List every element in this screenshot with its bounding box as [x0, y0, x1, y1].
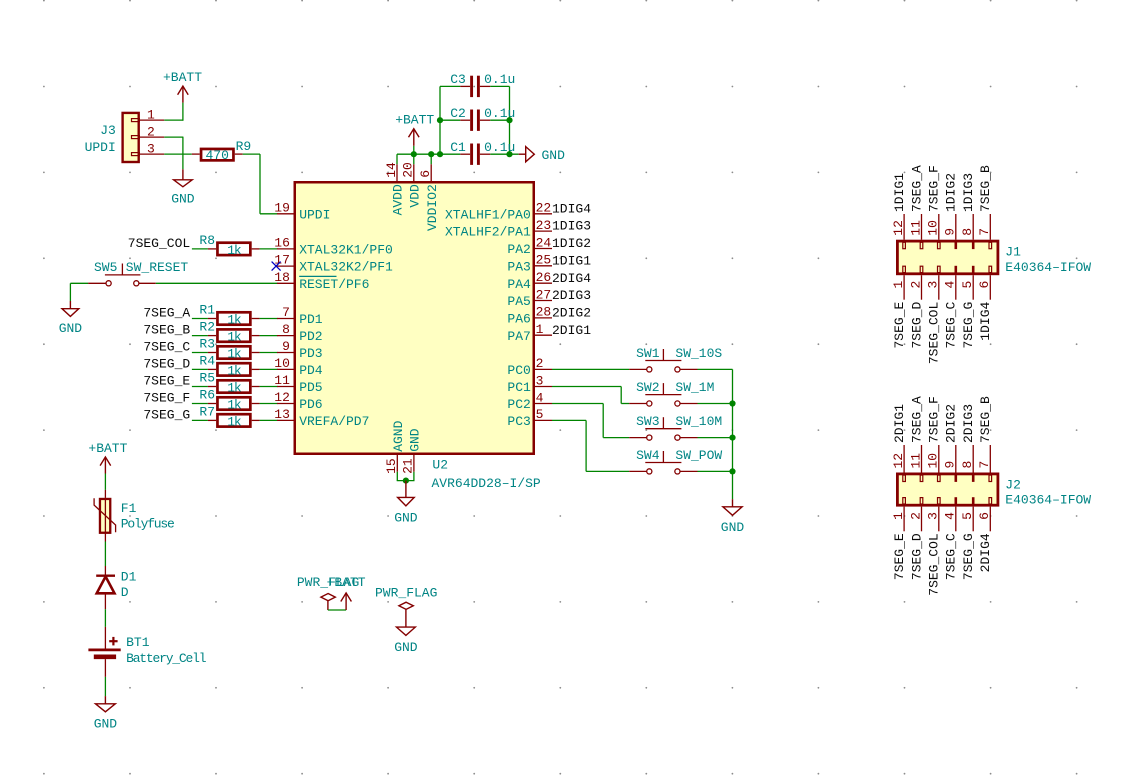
svg-text:Battery_Cell: Battery_Cell	[126, 651, 207, 666]
junction	[506, 117, 512, 123]
svg-text:12: 12	[274, 390, 290, 405]
wire	[260, 403, 278, 405]
U2 pin 9 PD3	[277, 339, 323, 361]
svg-text:U2: U2	[432, 457, 448, 472]
svg-text:2: 2	[908, 512, 923, 520]
wire	[552, 386, 621, 388]
wire	[260, 419, 278, 421]
svg-text:7SEG_D: 7SEG_D	[143, 356, 190, 371]
svg-text:J1: J1	[1005, 244, 1021, 259]
svg-text:22: 22	[536, 201, 552, 216]
svg-text:SW5: SW5	[94, 260, 117, 275]
wire	[259, 154, 261, 214]
svg-text:D1: D1	[121, 569, 137, 584]
svg-text:PA4: PA4	[507, 277, 531, 292]
+BATT power symbol at battery	[88, 441, 127, 474]
svg-text:1k: 1k	[227, 380, 242, 395]
junction	[506, 151, 512, 157]
switch SW5 SW_RESET	[94, 260, 188, 286]
svg-text:GND: GND	[394, 640, 418, 655]
svg-text:2DIG2: 2DIG2	[944, 404, 959, 443]
wire	[439, 86, 441, 154]
ground arrow right of C1	[519, 147, 565, 163]
IC U2 AVR64DD28-I/SP	[295, 182, 541, 491]
wire	[509, 86, 511, 154]
resistor R3	[199, 337, 259, 362]
connector J3	[85, 107, 165, 162]
switch SW2 SW_1M	[629, 380, 714, 406]
battery BT1 Battery_Cell	[88, 627, 206, 677]
svg-text:1DIG2: 1DIG2	[552, 236, 591, 251]
svg-text:E40364–IFOW: E40364–IFOW	[1005, 260, 1091, 275]
U2 pin 17 XTAL32K2/PF1	[274, 253, 393, 275]
svg-text:7SEG_F: 7SEG_F	[143, 391, 190, 406]
junction	[428, 151, 434, 157]
resistor R6	[199, 388, 259, 413]
svg-text:7SEG_COL: 7SEG_COL	[927, 302, 942, 364]
wire	[192, 318, 208, 320]
svg-text:C1: C1	[450, 140, 466, 155]
wire	[490, 153, 519, 155]
wire	[490, 85, 509, 87]
wire	[552, 368, 629, 370]
svg-text:7SEG_C: 7SEG_C	[143, 340, 190, 355]
ground at SW5	[59, 301, 83, 336]
svg-text:28: 28	[536, 305, 552, 320]
svg-text:PA5: PA5	[507, 294, 530, 309]
svg-text:PD4: PD4	[299, 363, 323, 378]
svg-text:J3: J3	[100, 123, 116, 138]
svg-text:+BATT: +BATT	[395, 113, 434, 128]
svg-text:R3: R3	[199, 337, 215, 352]
power flag PWR_FLAG on GND	[375, 585, 437, 627]
svg-text:1: 1	[536, 322, 544, 337]
U2 pin 13 VREFA/PD7	[274, 407, 369, 429]
svg-text:2DIG3: 2DIG3	[552, 288, 591, 303]
no-connect on pin 17	[272, 262, 281, 271]
svg-text:UPDI: UPDI	[85, 140, 116, 155]
U2 pin 14 AVDD	[384, 154, 406, 215]
svg-text:2: 2	[908, 281, 923, 289]
svg-text:PA2: PA2	[507, 242, 530, 257]
svg-text:1DIG1: 1DIG1	[892, 173, 907, 212]
svg-text:PA6: PA6	[507, 312, 530, 327]
svg-text:9: 9	[943, 461, 958, 469]
svg-text:SW_RESET: SW_RESET	[126, 260, 189, 275]
svg-text:11: 11	[908, 220, 923, 236]
svg-text:6: 6	[418, 170, 433, 178]
svg-text:1: 1	[147, 107, 155, 122]
U2 pin 12 PD6	[274, 390, 322, 412]
svg-text:3: 3	[147, 141, 155, 156]
svg-text:4: 4	[943, 512, 958, 520]
svg-text:1: 1	[891, 281, 906, 289]
svg-text:2DIG1: 2DIG1	[552, 323, 591, 338]
U2 pin 21 GND	[401, 428, 423, 474]
U2 pin 8 PD2	[277, 322, 323, 344]
wire	[260, 386, 278, 388]
svg-text:GND: GND	[542, 148, 566, 163]
svg-text:19: 19	[274, 200, 290, 215]
svg-text:7SEG_E: 7SEG_E	[892, 533, 907, 580]
svg-text:Polyfuse: Polyfuse	[121, 517, 174, 532]
svg-text:1k: 1k	[227, 414, 242, 429]
svg-text:UPDI: UPDI	[299, 207, 330, 222]
svg-text:J2: J2	[1005, 477, 1021, 492]
svg-text:4: 4	[943, 281, 958, 289]
U2 pin 28 PA6	[507, 305, 552, 327]
svg-text:VDD: VDD	[408, 184, 423, 208]
svg-text:470: 470	[205, 148, 228, 163]
svg-text:7SEG_B: 7SEG_B	[978, 396, 993, 443]
+BATT power symbol at VDD	[395, 113, 434, 146]
svg-text:10: 10	[926, 220, 941, 236]
svg-text:7SEG_A: 7SEG_A	[909, 165, 924, 212]
svg-text:PD6: PD6	[299, 397, 322, 412]
svg-text:7SEG_C: 7SEG_C	[944, 302, 959, 349]
svg-text:SW_10M: SW_10M	[675, 414, 722, 429]
U2 pin 1 PA7	[507, 322, 552, 344]
svg-text:5: 5	[960, 512, 975, 520]
svg-text:SW1: SW1	[636, 346, 660, 361]
wire	[698, 403, 733, 405]
junction	[411, 151, 417, 157]
svg-text:7SEG_F: 7SEG_F	[927, 396, 942, 443]
wire	[396, 472, 398, 481]
svg-text:PWR_FLAG: PWR_FLAG	[375, 585, 437, 600]
svg-text:2DIG1: 2DIG1	[892, 404, 907, 443]
U2 pin 15 AGND	[384, 420, 406, 474]
wire	[192, 248, 208, 250]
svg-text:7SEG_F: 7SEG_F	[927, 165, 942, 212]
U2 pin 6 VDDIO2	[418, 154, 440, 231]
svg-text:0.1u: 0.1u	[484, 72, 515, 87]
svg-text:PD1: PD1	[299, 312, 323, 327]
svg-text:5: 5	[536, 407, 544, 422]
svg-text:PA3: PA3	[507, 259, 530, 274]
svg-text:SW_1M: SW_1M	[675, 380, 714, 395]
svg-text:SW4: SW4	[636, 448, 660, 463]
ground at J3	[171, 169, 195, 206]
svg-text:R6: R6	[199, 388, 215, 403]
junction	[729, 435, 735, 441]
svg-text:7: 7	[282, 305, 290, 320]
wire	[104, 474, 106, 490]
U2 pin 23 XTALHF2/PA1	[445, 218, 552, 240]
svg-text:24: 24	[536, 235, 552, 250]
svg-text:1k: 1k	[227, 330, 242, 345]
svg-text:AVR64DD28–I/SP: AVR64DD28–I/SP	[432, 476, 541, 491]
wire	[732, 369, 734, 499]
+BATT power symbol at power flag	[327, 575, 366, 610]
resistor R2	[199, 320, 259, 345]
svg-text:9: 9	[943, 228, 958, 236]
resistor R8	[199, 233, 259, 258]
connector J2	[891, 445, 1091, 531]
svg-text:3: 3	[536, 373, 544, 388]
wire	[440, 119, 460, 121]
svg-text:XTAL32K2/PF1: XTAL32K2/PF1	[299, 260, 393, 275]
svg-text:7SEG_A: 7SEG_A	[143, 306, 190, 321]
svg-text:7: 7	[977, 228, 992, 236]
wire	[182, 137, 184, 169]
svg-text:SW_10S: SW_10S	[675, 346, 722, 361]
U2 pin 22 XTALHF1/PA0	[445, 201, 552, 223]
junction	[437, 151, 443, 157]
wire	[192, 386, 208, 388]
svg-text:15: 15	[384, 458, 399, 474]
wire	[164, 153, 192, 155]
svg-text:PD2: PD2	[299, 329, 322, 344]
U2 pin 20 VDD	[401, 154, 423, 207]
wire	[182, 103, 184, 121]
switch SW1 SW_10S	[629, 346, 722, 372]
wire	[260, 352, 278, 354]
wire	[603, 437, 629, 439]
svg-text:8: 8	[960, 228, 975, 236]
svg-text:1k: 1k	[227, 243, 242, 258]
svg-text:2: 2	[147, 124, 155, 139]
resistor R4	[199, 353, 259, 378]
svg-text:7SEG_D: 7SEG_D	[909, 302, 924, 349]
svg-text:4: 4	[536, 390, 544, 405]
svg-text:GND: GND	[721, 520, 745, 535]
capacitor C2	[450, 106, 515, 131]
wire	[156, 282, 278, 284]
svg-text:XTAL32K1/PF0: XTAL32K1/PF0	[299, 243, 393, 258]
wire	[698, 437, 733, 439]
ground at U2	[394, 481, 418, 526]
svg-text:R4: R4	[199, 353, 215, 368]
wire	[70, 282, 88, 284]
svg-text:GND: GND	[394, 510, 418, 525]
U2 pin 27 PA5	[507, 287, 552, 309]
wire	[192, 368, 208, 370]
junction	[729, 400, 735, 406]
svg-text:25: 25	[536, 253, 552, 268]
svg-text:R5: R5	[199, 371, 215, 386]
wire	[440, 85, 460, 87]
svg-text:PD5: PD5	[299, 380, 322, 395]
svg-text:27: 27	[536, 287, 552, 302]
svg-text:7SEG_E: 7SEG_E	[892, 302, 907, 349]
U2 pin 24 PA2	[507, 235, 552, 257]
wire	[413, 472, 415, 481]
svg-text:10: 10	[926, 453, 941, 469]
svg-text:D: D	[121, 585, 129, 600]
svg-text:13: 13	[274, 407, 290, 422]
diode D1	[96, 566, 136, 609]
power flag PWR_FLAG on +BATT	[297, 575, 359, 610]
svg-text:14: 14	[384, 162, 399, 178]
svg-text:PC2: PC2	[507, 397, 530, 412]
svg-text:20: 20	[401, 162, 416, 178]
wire	[620, 387, 622, 404]
wire	[397, 153, 460, 155]
capacitor C1	[450, 140, 515, 165]
+BATT power symbol at J3	[163, 70, 202, 103]
wire	[698, 368, 733, 370]
U2 pin 2 PC0	[507, 356, 552, 378]
wire	[192, 352, 208, 354]
svg-text:1k: 1k	[227, 346, 242, 361]
svg-text:11: 11	[274, 373, 290, 388]
connector J1	[891, 214, 1091, 300]
svg-text:7SEG_B: 7SEG_B	[143, 323, 190, 338]
svg-text:XTALHF1/PA0: XTALHF1/PA0	[445, 207, 531, 222]
svg-text:6: 6	[977, 281, 992, 289]
svg-text:1DIG2: 1DIG2	[944, 173, 959, 212]
wire	[260, 213, 278, 215]
svg-text:AGND: AGND	[391, 420, 406, 451]
junction	[403, 478, 409, 484]
svg-text:7SEG_COL: 7SEG_COL	[927, 533, 942, 595]
svg-text:7SEG_B: 7SEG_B	[978, 165, 993, 212]
svg-text:7SEG_COL: 7SEG_COL	[128, 236, 190, 251]
wire	[192, 403, 208, 405]
svg-text:7SEG_G: 7SEG_G	[961, 533, 976, 580]
junction	[729, 468, 735, 474]
wire	[621, 403, 629, 405]
svg-text:R8: R8	[199, 233, 215, 248]
svg-text:F1: F1	[121, 501, 137, 516]
capacitor C3	[450, 72, 515, 97]
svg-text:7SEG_E: 7SEG_E	[143, 374, 190, 389]
svg-text:1: 1	[891, 512, 906, 520]
svg-text:1k: 1k	[227, 397, 242, 412]
wire	[192, 419, 208, 421]
svg-text:26: 26	[536, 270, 552, 285]
wire	[585, 420, 587, 471]
svg-text:2: 2	[536, 356, 544, 371]
svg-text:GND: GND	[94, 716, 118, 731]
junction	[437, 117, 443, 123]
svg-text:E40364–IFOW: E40364–IFOW	[1005, 493, 1091, 508]
svg-text:R2: R2	[199, 320, 215, 335]
svg-text:3: 3	[926, 281, 941, 289]
wire	[260, 318, 278, 320]
svg-text:1DIG1: 1DIG1	[552, 253, 591, 268]
svg-text:7: 7	[977, 461, 992, 469]
svg-text:7SEG_D: 7SEG_D	[909, 533, 924, 580]
resistor R5	[199, 371, 259, 396]
svg-text:XTALHF2/PA1: XTALHF2/PA1	[445, 225, 531, 240]
svg-text:RESET/PF6: RESET/PF6	[299, 277, 369, 292]
ground at battery	[94, 696, 118, 731]
svg-text:GND: GND	[59, 321, 83, 336]
svg-text:C2: C2	[450, 106, 466, 121]
svg-text:7SEG_A: 7SEG_A	[909, 396, 924, 443]
svg-text:+BATT: +BATT	[327, 575, 366, 590]
ground at switch rail	[721, 499, 745, 535]
svg-text:2DIG2: 2DIG2	[552, 306, 591, 321]
U2 pin 16 XTAL32K1/PF0	[274, 236, 393, 258]
svg-text:2DIG3: 2DIG3	[961, 404, 976, 443]
svg-text:1DIG4: 1DIG4	[552, 201, 591, 216]
svg-text:+BATT: +BATT	[88, 441, 127, 456]
wire	[260, 248, 278, 250]
wire	[397, 480, 415, 482]
svg-text:1DIG3: 1DIG3	[961, 173, 976, 212]
svg-text:10: 10	[274, 356, 290, 371]
svg-text:PC0: PC0	[507, 363, 530, 378]
wire	[260, 368, 278, 370]
wire	[586, 470, 629, 472]
resistor R9	[192, 139, 251, 163]
svg-text:1DIG3: 1DIG3	[552, 219, 591, 234]
svg-text:21: 21	[401, 458, 416, 474]
wire	[552, 403, 603, 405]
U2 pin 7 PD1	[277, 305, 323, 327]
U2 pin 10 PD4	[274, 356, 323, 378]
svg-text:12: 12	[891, 453, 906, 469]
svg-text:SW3: SW3	[636, 414, 659, 429]
U2 pin 4 PC2	[507, 390, 552, 412]
svg-text:PC3: PC3	[507, 414, 530, 429]
wire	[104, 677, 106, 696]
svg-text:VREFA/PD7: VREFA/PD7	[299, 414, 369, 429]
svg-text:1DIG4: 1DIG4	[978, 302, 993, 341]
svg-text:GND: GND	[408, 428, 423, 452]
svg-text:7SEG_G: 7SEG_G	[143, 407, 190, 422]
svg-text:PA7: PA7	[507, 329, 530, 344]
wire	[698, 470, 733, 472]
svg-text:PC1: PC1	[507, 380, 531, 395]
svg-text:2DIG4: 2DIG4	[978, 533, 993, 572]
switch SW4 SW_POW	[629, 448, 722, 474]
svg-text:GND: GND	[171, 191, 195, 206]
svg-text:7SEG_G: 7SEG_G	[961, 302, 976, 349]
svg-text:C3: C3	[450, 72, 466, 87]
wire	[164, 136, 183, 138]
switch SW3 SW_10M	[629, 414, 722, 440]
wire	[243, 153, 260, 155]
fuse F1 Polyfuse	[94, 490, 174, 542]
svg-text:PD3: PD3	[299, 346, 322, 361]
svg-text:AVDD: AVDD	[391, 184, 406, 215]
svg-text:BT1: BT1	[126, 635, 150, 650]
svg-text:18: 18	[274, 270, 290, 285]
svg-text:VDDIO2: VDDIO2	[425, 184, 440, 231]
svg-text:9: 9	[282, 339, 290, 354]
svg-text:16: 16	[274, 236, 290, 251]
wire	[490, 119, 509, 121]
U2 pin 18 RESET/PF6	[274, 270, 369, 292]
wire	[552, 419, 586, 421]
svg-text:2DIG4: 2DIG4	[552, 271, 591, 286]
wire	[104, 542, 106, 567]
svg-text:R7: R7	[199, 404, 215, 419]
svg-text:23: 23	[536, 218, 552, 233]
svg-text:11: 11	[908, 453, 923, 469]
wire	[164, 119, 183, 121]
resistor R1	[199, 303, 259, 328]
svg-text:SW_POW: SW_POW	[675, 448, 722, 463]
svg-text:12: 12	[891, 220, 906, 236]
svg-text:5: 5	[960, 281, 975, 289]
svg-text:R9: R9	[236, 139, 252, 154]
svg-text:8: 8	[960, 461, 975, 469]
svg-text:SW2: SW2	[636, 380, 659, 395]
wire	[69, 283, 71, 301]
U2 pin 5 PC3	[507, 407, 552, 429]
wire	[192, 335, 208, 337]
svg-text:7SEG_C: 7SEG_C	[944, 533, 959, 580]
U2 pin 25 PA3	[507, 253, 552, 275]
svg-text:+BATT: +BATT	[163, 70, 202, 85]
svg-text:1k: 1k	[227, 363, 242, 378]
svg-text:R1: R1	[199, 303, 215, 318]
